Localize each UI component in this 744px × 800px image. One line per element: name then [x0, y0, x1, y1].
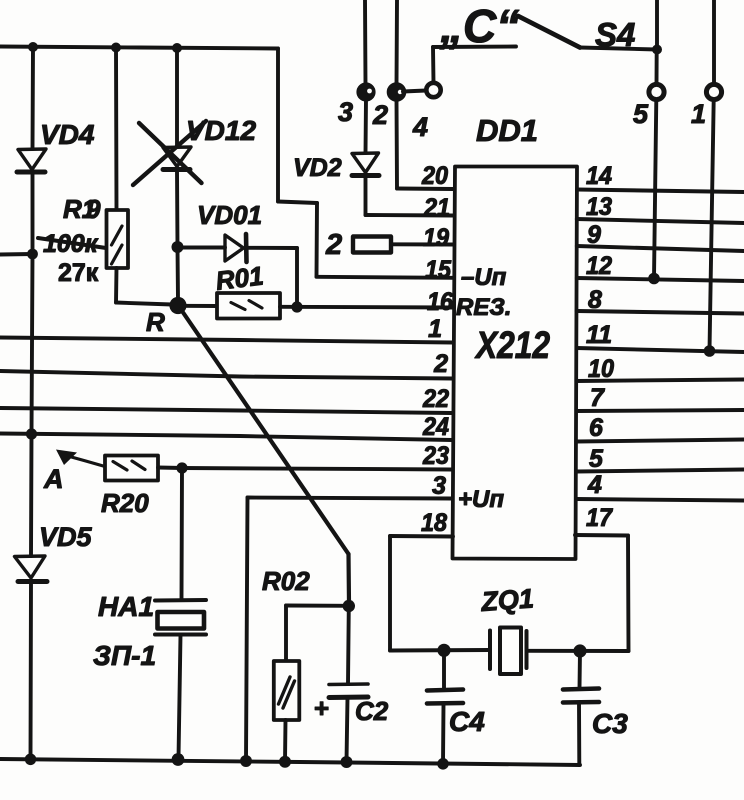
wire VD01 corner down	[295, 248, 299, 307]
svg-text:19: 19	[423, 224, 449, 252]
wire pin15 feed: horizontal jog	[278, 202, 317, 204]
wire VD2 lower to pin21	[364, 176, 368, 215]
switch contact 2	[389, 84, 405, 100]
wire pin 18	[390, 534, 453, 538]
diode VD2	[352, 153, 379, 176]
wire pin 15	[317, 277, 454, 278]
svg-text:16: 16	[427, 288, 454, 316]
svg-text:10: 10	[588, 355, 614, 383]
wire pin 1 bus	[0, 338, 452, 343]
diode VD5	[15, 556, 48, 582]
svg-text:2: 2	[325, 229, 342, 261]
wire stub from left edge	[0, 252, 33, 256]
wire pin 3	[248, 498, 453, 499]
junction bottom R02	[279, 756, 291, 768]
wire diagonal node R to C2 node	[181, 310, 349, 555]
svg-text:VD2: VD2	[293, 154, 342, 182]
junction bottom pin3	[240, 755, 252, 767]
wire ZQ1 loop left vertical	[388, 536, 392, 651]
wire fixed contact C	[433, 45, 516, 49]
svg-text:C3: C3	[592, 708, 628, 739]
wire R02 to C2 node	[286, 604, 349, 608]
svg-text:1: 1	[428, 315, 442, 343]
svg-text:2: 2	[433, 350, 448, 378]
junction bottom HA1	[172, 753, 185, 766]
wire R19 lower	[114, 268, 118, 303]
wire diagonal lower vertical	[346, 554, 351, 604]
svg-text:22: 22	[422, 385, 449, 413]
wire pin15 feed: down from top bus	[276, 49, 280, 202]
svg-text:20: 20	[421, 162, 448, 190]
node R	[169, 297, 186, 314]
wire pin 6	[576, 440, 744, 442]
wire pin15 feed: down to pin level	[315, 203, 319, 277]
wire pin 23 from R20	[158, 468, 452, 470]
wire R02 bottom	[283, 720, 287, 762]
wire contact-1 vertical from top	[712, 0, 716, 84]
junction C2 node	[343, 600, 355, 612]
wire pin 12	[577, 278, 744, 281]
svg-text:„C“: „C“	[439, 0, 519, 52]
junction R19 top	[111, 43, 121, 53]
svg-text:6: 6	[589, 414, 604, 442]
wire pin 14	[577, 190, 744, 193]
resistor R01	[217, 293, 280, 319]
junction C3 tap	[573, 644, 586, 657]
wire C4 lower	[441, 704, 445, 764]
wire C2 upper	[346, 606, 351, 684]
cross-out X over VD12	[133, 121, 206, 185]
switch contact 1	[706, 84, 721, 99]
junction bottom C2	[341, 756, 353, 768]
wire VD01 right	[247, 246, 298, 250]
svg-text:5: 5	[633, 99, 649, 129]
junction pin11 tap	[704, 345, 716, 357]
wire blade to pivot	[580, 48, 657, 50]
svg-text:12: 12	[586, 252, 612, 280]
wire VD5 lower	[29, 582, 33, 759]
strike line over 100k	[38, 238, 106, 248]
svg-text:14: 14	[586, 162, 612, 190]
svg-text:C4: C4	[449, 706, 485, 737]
junction VD12 top	[172, 43, 182, 53]
junction pin24 and left vertical	[26, 428, 37, 439]
wire VD01 left	[178, 246, 226, 250]
wire HA1 lower	[179, 635, 181, 758]
crystal ZQ1	[490, 628, 527, 675]
wire contact4 up	[431, 47, 435, 83]
wire pivot vertical from top	[655, 0, 659, 50]
wire link contact2-contact4	[403, 91, 426, 92]
wire pin 16	[280, 305, 453, 310]
svg-text:ZQ1: ZQ1	[479, 583, 534, 617]
wire top bus	[0, 47, 278, 49]
wire pin 10	[576, 380, 744, 382]
svg-text:23: 23	[422, 442, 449, 470]
wire R19 upper	[114, 48, 118, 211]
svg-text:8: 8	[588, 286, 602, 314]
wire crystal left	[390, 648, 489, 652]
wire bottom bus	[0, 759, 580, 765]
junction VD4 top	[28, 42, 38, 52]
switch S4 blade	[518, 16, 580, 48]
svg-text:1: 1	[691, 99, 706, 129]
wire pin 17	[575, 533, 628, 537]
wire pin 8	[577, 311, 744, 314]
resistor R19	[107, 210, 129, 268]
svg-text:5: 5	[589, 445, 604, 473]
svg-text:3: 3	[338, 97, 353, 127]
switch contact 4	[426, 83, 440, 97]
wire R19 to node R	[116, 303, 172, 305]
wire pin 9	[577, 246, 744, 251]
wire pin 7	[576, 410, 744, 411]
wire VD4 upper	[31, 47, 35, 149]
svg-text:2: 2	[372, 100, 388, 130]
wire VD2 upper	[364, 99, 368, 153]
wire contact2 down to pin20	[395, 99, 399, 189]
IC DD1 body	[453, 167, 578, 560]
svg-text:21: 21	[423, 194, 450, 222]
svg-text:13: 13	[586, 193, 612, 221]
diode VD01	[225, 234, 247, 262]
wire pin 2 bus	[0, 371, 452, 379]
svg-text:S4: S4	[595, 16, 635, 53]
wire VD12 upper	[175, 48, 179, 147]
wire node R to R01	[178, 304, 217, 308]
wire contact5 down to pin12	[654, 100, 656, 279]
svg-text:15: 15	[425, 256, 452, 284]
wire VD4 middle	[31, 173, 35, 254]
arrow A at R20	[66, 456, 105, 467]
switch contact 3	[358, 84, 373, 99]
junction C4 tap	[437, 644, 450, 657]
junction R01 right	[291, 301, 302, 312]
svg-text:4: 4	[412, 112, 428, 142]
wire C3 lower	[577, 703, 581, 766]
resistor R20	[105, 456, 158, 481]
wire pin 4	[576, 499, 744, 501]
junction bottom VD5	[25, 754, 37, 766]
wire left vertical VD4-VD5	[31, 254, 33, 556]
wire C3 upper	[578, 651, 582, 688]
capacitor C2	[329, 684, 368, 698]
svg-text:4: 4	[587, 471, 602, 499]
wire R02 top	[284, 606, 288, 662]
svg-text:24: 24	[422, 413, 449, 441]
wire pin 19	[391, 242, 453, 246]
junction R20-HA1	[176, 462, 187, 473]
wire ZQ1 loop right vertical	[626, 536, 630, 652]
switch contact 5	[649, 84, 664, 99]
junction VD01 tap	[172, 241, 184, 253]
wire C2 lower	[347, 698, 348, 762]
junction pin12 tap	[648, 273, 660, 285]
junction bottom C4	[437, 758, 449, 770]
wire HA1 upper	[180, 468, 184, 599]
wire pin 22 bus	[0, 408, 452, 413]
resistor R02	[274, 661, 300, 720]
wire pin 13	[577, 219, 744, 223]
wire contact-2 vertical from top	[395, 0, 399, 85]
wire C4 upper	[442, 650, 446, 689]
capacitor C3	[563, 689, 599, 703]
svg-text:17: 17	[586, 504, 613, 532]
capacitor C4	[427, 690, 463, 704]
wire pin 24 bus	[0, 434, 452, 441]
connector pin box	[353, 237, 391, 253]
diode VD12	[163, 147, 191, 170]
svg-text:18: 18	[421, 509, 447, 537]
svg-text:11: 11	[586, 321, 612, 349]
diode VD4	[17, 149, 46, 172]
svg-text:9: 9	[587, 221, 601, 249]
wire contact1 down to pin11	[710, 100, 714, 351]
wire VD12 lower	[177, 170, 178, 300]
wire pin 3 vertical	[246, 498, 248, 761]
wire pin 11	[577, 348, 744, 352]
wire crystal right	[527, 649, 629, 653]
svg-text:7: 7	[590, 384, 605, 412]
wire contact-3 vertical from top	[363, 0, 367, 85]
wire pin 5	[576, 470, 744, 472]
svg-text:3: 3	[432, 472, 446, 500]
junction stub-left	[27, 249, 38, 260]
buzzer HA1	[155, 600, 206, 635]
wire pin 20	[397, 187, 453, 191]
junction S4 pivot	[652, 45, 662, 55]
wire pin 21	[366, 213, 454, 217]
wire pivot down to contact 5	[655, 50, 659, 85]
